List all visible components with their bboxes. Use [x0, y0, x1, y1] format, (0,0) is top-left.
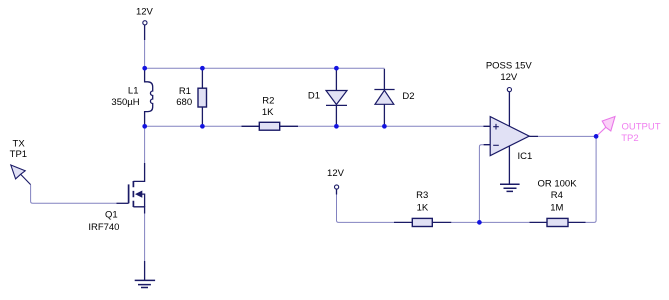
svg-text:Q1: Q1 [105, 209, 118, 220]
svg-text:R2: R2 [262, 95, 274, 106]
svg-text:12V: 12V [327, 168, 345, 179]
svg-text:TP1: TP1 [10, 149, 27, 160]
svg-text:R4: R4 [551, 190, 563, 201]
svg-text:D2: D2 [402, 91, 414, 102]
svg-text:D1: D1 [308, 91, 320, 102]
svg-text:R3: R3 [416, 190, 428, 201]
svg-text:OUTPUT: OUTPUT [622, 122, 661, 133]
svg-text:TX: TX [13, 138, 26, 149]
svg-text:1K: 1K [262, 107, 274, 118]
svg-text:IRF740: IRF740 [88, 222, 119, 233]
svg-text:TP2: TP2 [621, 133, 638, 144]
svg-text:L1: L1 [128, 86, 139, 97]
svg-text:12V: 12V [136, 6, 154, 17]
svg-text:1M: 1M [550, 202, 563, 213]
svg-text:IC1: IC1 [518, 151, 533, 162]
svg-text:R1: R1 [179, 86, 191, 97]
svg-text:12V: 12V [500, 72, 518, 83]
svg-text:OR 100K: OR 100K [537, 178, 577, 189]
svg-text:680: 680 [176, 97, 192, 108]
svg-text:1K: 1K [417, 202, 429, 213]
svg-text:350µH: 350µH [111, 97, 139, 108]
svg-text:POSS 15V: POSS 15V [486, 61, 533, 72]
